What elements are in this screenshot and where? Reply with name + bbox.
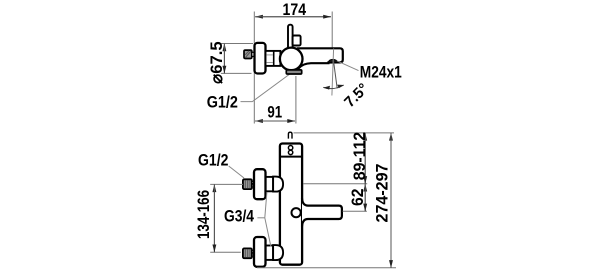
- diverter knob circle: [292, 208, 301, 217]
- upper stem: [264, 177, 273, 191]
- hose hook above body: [288, 132, 292, 138]
- plumb line through spout tip: [332, 49, 334, 96]
- dim 274-297 dimension line: [390, 133, 392, 268]
- svg-text:⌀67.5: ⌀67.5: [207, 41, 226, 84]
- lower escutcheon: [254, 237, 266, 267]
- aerator (dark): [328, 59, 337, 62]
- spout (side view): [298, 48, 343, 68]
- dim diameter 67.5 dimension line: [223, 44, 225, 74]
- dim 134-166 dimension line: [213, 184, 215, 252]
- dim 91 right extension line: [295, 76, 297, 124]
- dim 174 dimension line: [255, 16, 331, 18]
- svg-text:274-297: 274-297: [373, 164, 392, 223]
- handle rod: [288, 25, 293, 50]
- ext top of body: [294, 132, 395, 134]
- shower outlet bracket under body: [286, 70, 301, 74]
- dim 89-112 dimension line: [364, 133, 366, 184]
- dim 174 left extension line (wall plane): [253, 12, 255, 124]
- upper connection: hatched nut: [243, 179, 252, 189]
- handle knob: [293, 36, 301, 46]
- svg-text:M24x1: M24x1: [360, 62, 402, 81]
- upper escutcheon: [254, 169, 266, 199]
- leader G3/4 dash: [257, 217, 264, 219]
- svg-text:7.5°: 7.5°: [341, 80, 372, 111]
- tilted 7.5 deg line: [334, 62, 338, 89]
- mixer body (front view): [280, 144, 302, 265]
- body divider line: [280, 156, 302, 158]
- svg-text:89-112: 89-112: [350, 132, 369, 181]
- dim 134-166 extension lines: [210, 183, 243, 185]
- upper nut tabs: [252, 182, 254, 184]
- svg-text:134-166: 134-166: [194, 190, 213, 239]
- connector dome lower: [273, 245, 283, 260]
- ext connection centerline: [303, 183, 367, 185]
- leader G1/2 front: [229, 166, 244, 178]
- outlet circles (8): [288, 146, 292, 150]
- svg-text:91: 91: [267, 103, 282, 122]
- angle arc with arrows: [323, 85, 344, 89]
- dim 62 dimension line: [364, 184, 366, 212]
- leader G1/2 to shower outlet: [241, 71, 294, 101]
- ext spout top: [343, 210, 367, 212]
- lower connection: hatched nut: [243, 248, 252, 258]
- dim 91 dimension line: [255, 120, 295, 122]
- svg-text:174: 174: [283, 0, 307, 19]
- mixer body circle (side view): [280, 48, 303, 71]
- connector dome upper: [273, 177, 283, 192]
- dim 174 right extension / plumb centerline: [331, 12, 333, 49]
- lower stem: [264, 246, 273, 260]
- dim diameter 67.5 extension lines: [221, 43, 253, 45]
- svg-text:G1/2: G1/2: [207, 93, 238, 112]
- leader G3/4 fork lower: [265, 218, 271, 247]
- leader G3/4 fork upper: [265, 192, 267, 218]
- leader M24x1: [337, 61, 359, 71]
- spout arm (front view): [302, 198, 342, 226]
- union pipe: [266, 51, 281, 66]
- wall escutcheon (side view): [255, 43, 266, 74]
- nut stem: [252, 52, 255, 56]
- ext body bottom: [257, 267, 396, 269]
- wall nut G1/2 (hatched square, side view): [244, 50, 252, 58]
- svg-text:G3/4: G3/4: [224, 206, 255, 225]
- svg-text:62: 62: [348, 189, 367, 207]
- svg-text:G1/2: G1/2: [198, 150, 228, 169]
- lower nut tabs: [252, 251, 254, 253]
